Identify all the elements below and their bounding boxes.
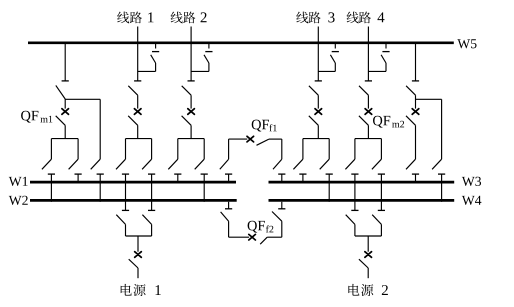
wire - line4 feeder (365, 27, 372, 81)
disconnector QS - QFm1 bay to bus W5 (62, 43, 69, 81)
circuit breaker line4 (x mark) (365, 95, 372, 114)
disconnector QS - QFm1 to bus W1 (right leg) (69, 159, 82, 183)
disconnector QS - QFm2 to bus W3 (406, 159, 419, 183)
disconnector QS - QFm2 branch to bus W4 (432, 159, 445, 202)
label line 2 (xianlu 2) (171, 12, 207, 24)
disconnector blade line1 upper (128, 86, 137, 95)
wire - line3 fork (303, 139, 329, 160)
disconnector blade line3 lower (309, 116, 319, 139)
circuit breaker QFm2 (x mark) (412, 95, 419, 114)
disconnector blade QFf2 inline (260, 237, 282, 244)
busbar W2 (30, 199, 237, 202)
disconnector QS - source1 left (116, 210, 129, 236)
circuit breaker QFm1 (x mark) (62, 99, 69, 114)
wire - QFm1 fork (51, 139, 78, 160)
wire - QFm2 branch (416, 99, 442, 159)
label W4 (462, 196, 482, 205)
circuit breaker line3 (x mark) (315, 95, 322, 114)
disconnector blade QFf1 inline (257, 139, 282, 145)
label W2 (9, 196, 28, 205)
disconnector blade QFm2 lower (406, 116, 416, 159)
circuit breaker line1 (x mark) (134, 95, 141, 114)
label QFf1 (252, 120, 277, 132)
disconnector QS - line2 left leg (168, 159, 181, 183)
disconnector QS - line2 right leg (195, 159, 208, 202)
disconnector QS - QFm2 bay to bus W5 (412, 43, 419, 81)
busbar W1 (30, 181, 236, 184)
disconnector QS - line1 left leg (116, 159, 129, 210)
disconnector QS - line1 bypass to W5 (138, 43, 160, 72)
disconnector QS - QFm1 branch to bus W2 (91, 159, 104, 202)
disconnector QS - line4 bypass to W5 (368, 43, 389, 72)
disconnector QS - source1 right (142, 210, 155, 236)
label source 2 (dianyuan 2) (348, 284, 387, 296)
disconnector blade QFm1 lower (56, 116, 65, 139)
disconnector QS - line3 bypass to W5 (318, 43, 339, 72)
label line 3 (xianlu 3) (296, 12, 334, 24)
disconnector QS - line4 right leg (372, 159, 385, 210)
disconnector QS - line3 right leg (320, 159, 333, 202)
wire - source1 fork bar (126, 235, 152, 237)
disconnector QS - QFf1 to bus W3 (273, 139, 285, 183)
circuit breaker QFf1 (x mark) (247, 136, 254, 142)
disconnector QS - source2 left (346, 210, 359, 236)
label source 1 (dianyuan 1) (121, 284, 161, 296)
wire - line2 feeder (188, 27, 195, 81)
label W3 (462, 177, 481, 186)
label W1 (9, 177, 28, 186)
disconnector blade line2 upper (182, 86, 191, 95)
wire - line2 fork (178, 139, 204, 160)
busbar W3 (269, 181, 455, 184)
wire - QFf2 horizontal (229, 236, 250, 238)
disconnector QS - line2 bypass to W5 (191, 43, 212, 72)
wire - QFf1 horizontal (229, 138, 248, 140)
wire - line1 feeder (134, 27, 141, 81)
disconnector QS - line4 left leg (345, 159, 358, 210)
wire - line3 feeder (315, 27, 322, 81)
label QFm2 (373, 116, 404, 128)
busbar W4 (269, 199, 455, 202)
disconnector QS - source2 right (372, 210, 385, 236)
disconnector blade line1 lower (128, 116, 138, 139)
circuit breaker source1 (x mark) and blade (129, 236, 142, 278)
disconnector blade line2 lower (182, 116, 192, 139)
disconnector blade line3 upper (309, 86, 318, 95)
disconnector QS - QFf2 to bus W4 (272, 202, 285, 237)
disconnector QS - line1 right leg (142, 159, 155, 210)
wire - QFm1 branch (65, 99, 100, 159)
circuit breaker source2 (x mark) and blade (359, 236, 372, 278)
circuit breaker QFf2 (x mark) (249, 234, 256, 240)
label QFf2 (248, 221, 274, 233)
wire - line4 fork (355, 139, 382, 160)
disconnector QS - QFf1 to bus W1 (220, 139, 232, 183)
busbar W5 (bypass bus) (28, 41, 454, 44)
disconnector QS - QFm1 to bus W2 (left leg) (42, 159, 55, 202)
circuit breaker line2 (x mark) (188, 95, 195, 114)
label W5 (457, 39, 476, 48)
wire - source2 fork bar (355, 235, 382, 237)
disconnector blade line4 lower (359, 116, 369, 139)
disconnector QS - QFf2 to bus W2 (221, 202, 233, 237)
label line 1 (xianlu 1) (117, 12, 153, 24)
disconnector blade line4 upper (359, 86, 368, 95)
disconnector blade QFm2 upper (406, 86, 415, 95)
disconnector blade QFm1 upper (56, 85, 65, 99)
label QFm1 (21, 111, 52, 123)
wire - line1 fork (126, 139, 152, 160)
disconnector QS - line3 left leg (293, 159, 306, 183)
label line 4 (xianlu 4) (347, 12, 385, 24)
